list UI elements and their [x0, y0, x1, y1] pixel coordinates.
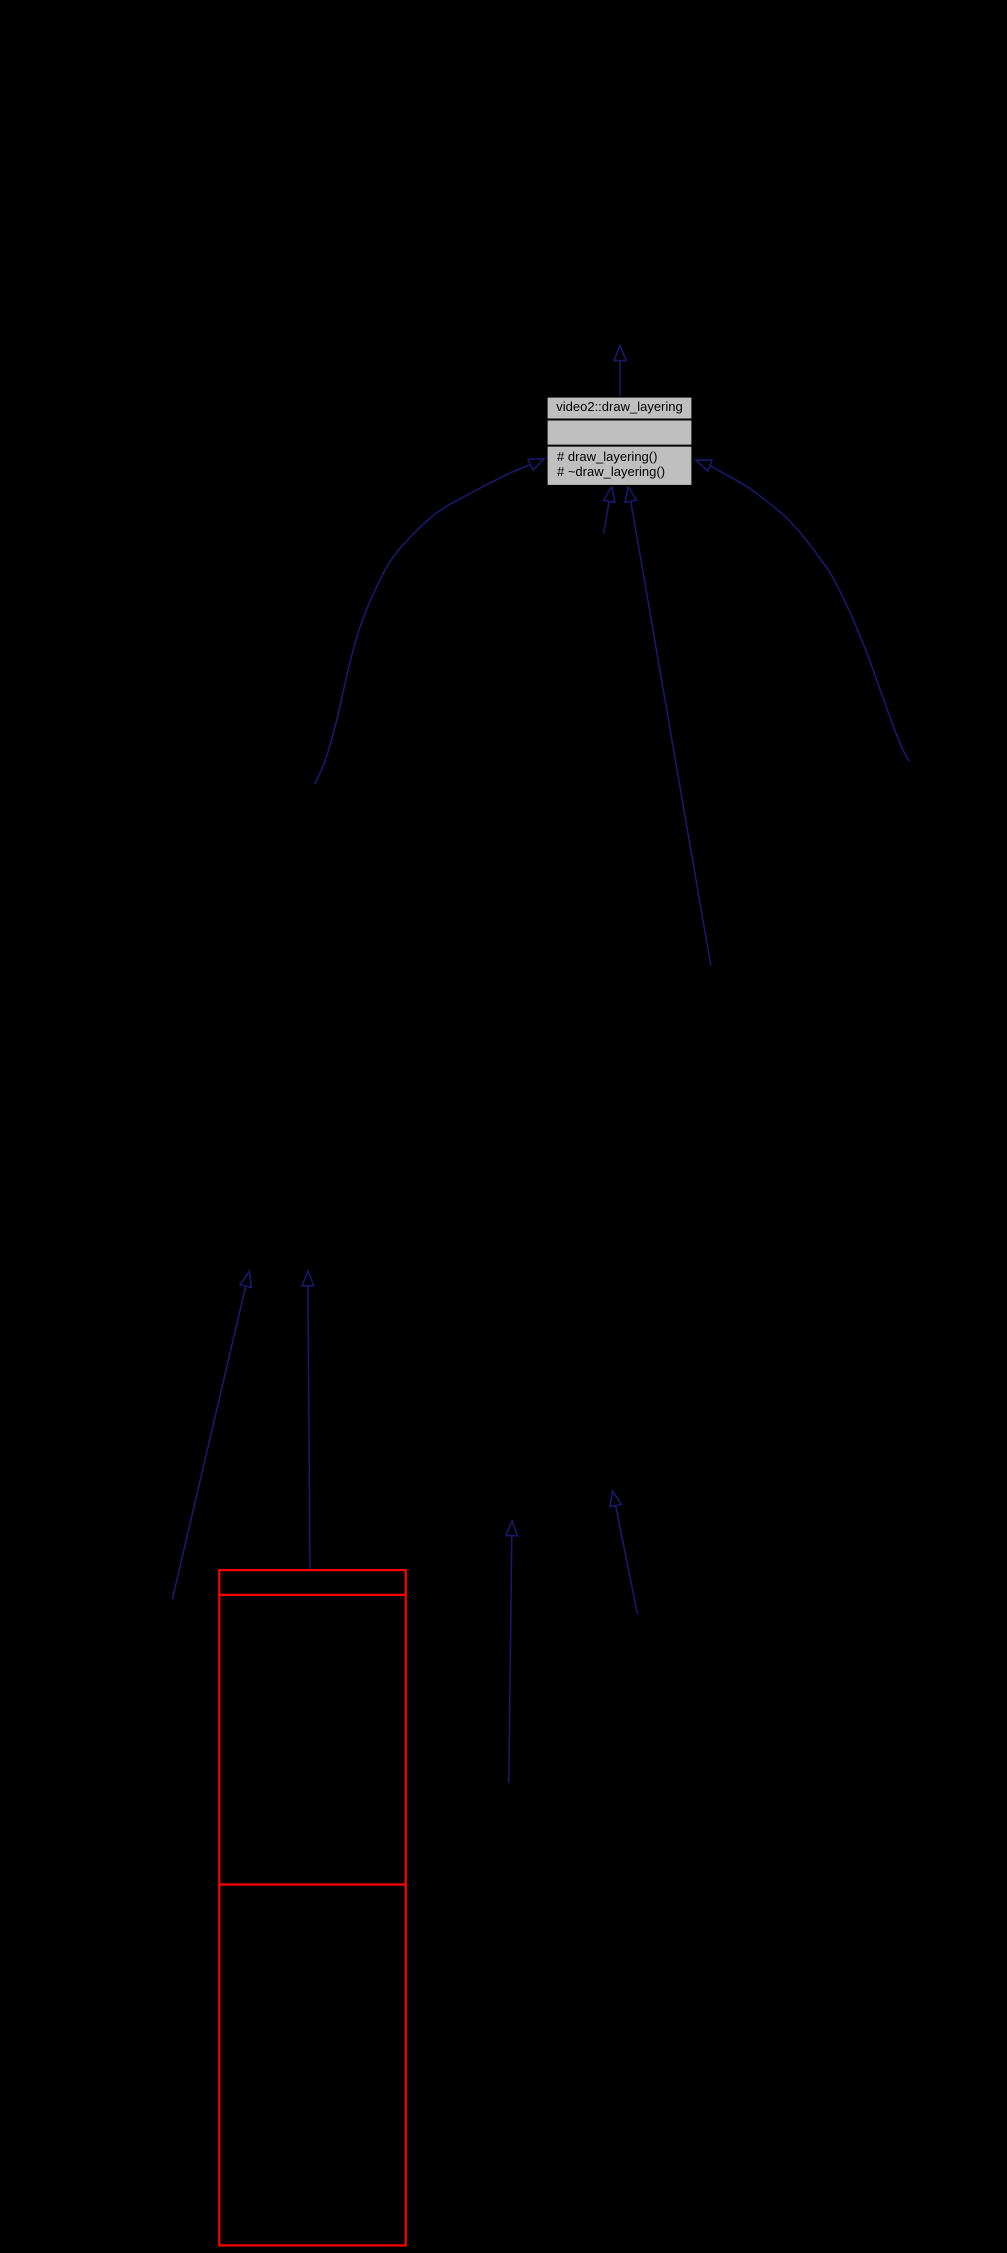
inheritance arrow (up from video2::draw_layering to invisible parent) [614, 346, 626, 397]
inheritance arrow (long edge from invisible child at lower right into bottom of box) [625, 487, 711, 966]
inheritance arrow (short diagonal, bottom-right of red box area) [610, 1491, 638, 1614]
truncated class box (red border, bottom left) [218, 1570, 406, 2245]
inheritance arrow (right curved edge from invisible child up-left into right side of box) [696, 460, 909, 761]
inheritance arrow (vertical, center-bottom cluster) [506, 1521, 518, 1783]
svg-text:# ~draw_layering(): # ~draw_layering() [557, 464, 665, 479]
inheritance arrow (diagonal up-right, lower-left cluster, from beside red box) [172, 1272, 251, 1600]
inheritance arrow (left curved edge from invisible child up-right into left side of box) [315, 459, 544, 784]
inheritance arrow (short edge into bottom-left of box) [603, 487, 614, 534]
inheritance arrow (vertical, from red box top up to invisible parent) [302, 1271, 314, 1569]
class box video2::draw_layering (grey, current class) [547, 397, 693, 486]
svg-text:video2::draw_layering: video2::draw_layering [556, 399, 682, 414]
svg-text:# draw_layering(): # draw_layering() [557, 449, 657, 464]
